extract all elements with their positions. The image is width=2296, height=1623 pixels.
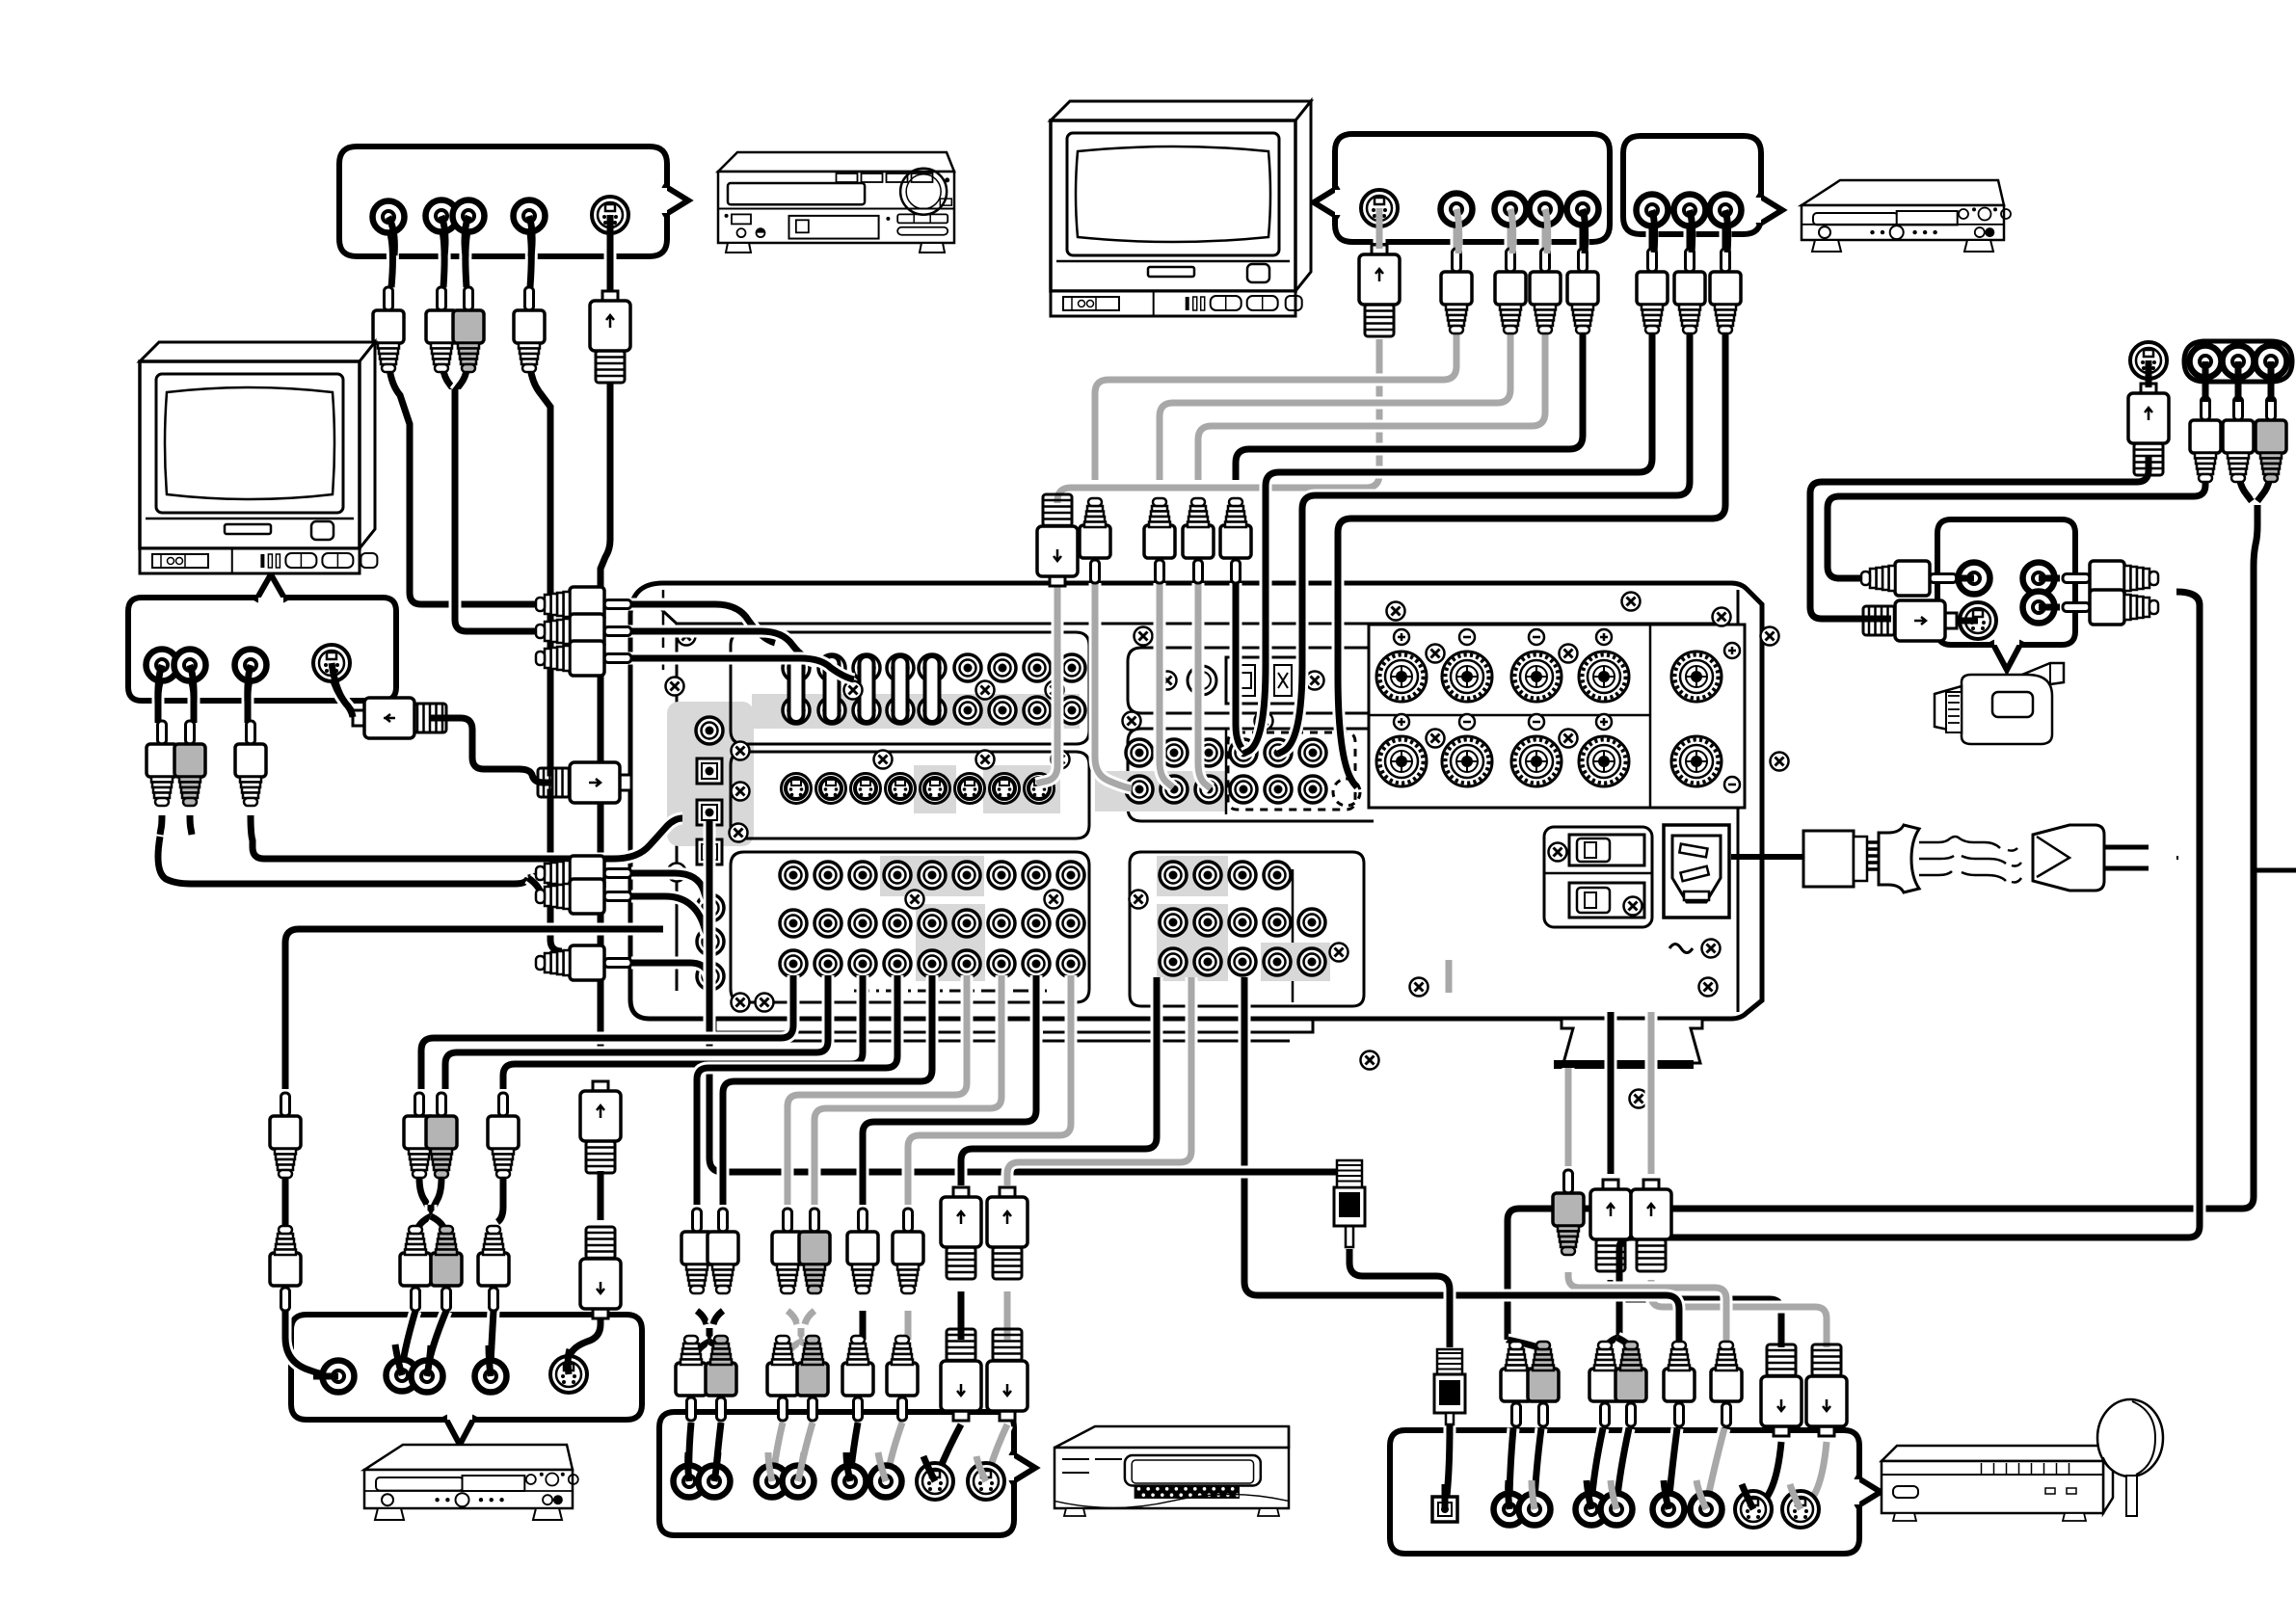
left TV callout jacks bbox=[147, 650, 178, 681]
cable link audio jacks panel bbox=[631, 873, 707, 902]
cable BL pair merged bbox=[425, 1205, 438, 1220]
cable left plug 655 into video pill column 2 bbox=[607, 631, 817, 662]
video rows screws bbox=[844, 681, 863, 700]
cable s-video extension upper half emerges under panel bbox=[1605, 1012, 1617, 1174]
callout box turntable or tape jacks bottom left bbox=[291, 1315, 642, 1420]
shaded band mid right bbox=[1095, 771, 1226, 811]
DVD callout jack video bbox=[373, 201, 405, 233]
cable TV monitor video 1 bbox=[1451, 224, 1463, 249]
rca plugs into LD callout bbox=[1501, 1342, 1532, 1426]
cable s-video extension 2 lower half to LD s-video 2 bbox=[1651, 1280, 1827, 1347]
cable link into panel audio jack bbox=[631, 963, 709, 978]
audio column jack 3 bbox=[697, 963, 724, 990]
cable run to BL pair white bbox=[421, 975, 793, 1089]
LD player device bbox=[1882, 1446, 2113, 1521]
s-video plugs into LD callout bbox=[1761, 1344, 1802, 1436]
LD callout optical jack bbox=[1432, 1497, 1457, 1522]
s-video plug TV monitor bbox=[1359, 245, 1400, 336]
panel section frame lower mid bbox=[1130, 852, 1364, 1006]
main switch 1 bbox=[1569, 835, 1644, 865]
DVD callout s-video jack bbox=[592, 197, 628, 233]
AM loop antenna bbox=[2097, 1399, 2163, 1516]
cable left TV audio R bbox=[190, 677, 194, 723]
inline rca plugs BM pair2 gray bbox=[772, 1209, 803, 1293]
audio column jack 1 bbox=[697, 894, 724, 921]
optical digital jack 2 bbox=[697, 800, 722, 825]
cable DVD video out to panel bbox=[388, 227, 392, 287]
inline rca plugs BM single2 bbox=[893, 1209, 923, 1293]
cable camcorder left jacks into panel ext-in bbox=[1957, 572, 1962, 585]
cable far-right s-video plug down to camcorder callout bbox=[2143, 376, 2155, 386]
cable far-right rca1 down to camcorder callout bbox=[2200, 376, 2212, 399]
VCR device bbox=[1055, 1426, 1289, 1516]
antenna screws bbox=[1159, 672, 1177, 690]
rca plug CDR 2 bbox=[1674, 249, 1705, 333]
rca plug camcorder callout bbox=[1861, 561, 1957, 596]
CDR callout jacks bbox=[1637, 195, 1669, 226]
inline rca plugs bottom left run3 bbox=[488, 1093, 519, 1178]
callout box TV monitor jacks bbox=[1335, 134, 1610, 242]
rca plug trio 1 bbox=[2190, 397, 2221, 482]
cable CDR jack1 down bbox=[1646, 224, 1659, 249]
rca plug into panel video2 bbox=[536, 614, 631, 649]
optical plug lower bbox=[1434, 1349, 1465, 1424]
cable BM pair2 Y lower gray bbox=[788, 1311, 797, 1324]
rca plug TV monitor v1 bbox=[1441, 249, 1472, 333]
lower jack field rows bbox=[780, 862, 807, 889]
receiver panel foot bbox=[1554, 1019, 1702, 1069]
inline rca plugs bottom left pair white bbox=[404, 1093, 435, 1178]
speaker terminal block frame bbox=[1369, 625, 1745, 808]
coaxial digital jack bbox=[696, 717, 723, 744]
rca plug camcorder right white bbox=[2063, 561, 2158, 596]
AC inlet bbox=[1664, 825, 1729, 918]
power cord assembly bbox=[1803, 825, 2296, 892]
s-video row screws bbox=[874, 751, 893, 769]
TV monitor callout s-video jack bbox=[1361, 190, 1398, 226]
dash-dot service line bbox=[854, 990, 1047, 993]
s-video plug DVD bbox=[590, 291, 630, 383]
rca plug into panel video3 bbox=[536, 641, 631, 676]
cable run to BL jack3 bbox=[503, 975, 863, 1089]
cable left TV audio R lower bbox=[190, 815, 192, 835]
CD recorder device top right bbox=[1802, 180, 2011, 252]
cable optical lower half bbox=[1349, 1249, 1450, 1347]
speaker terminal right top bbox=[1671, 652, 1722, 702]
DVD player device bottom left bbox=[364, 1445, 578, 1520]
cable pair Y split to plugs q2 q3 bbox=[1508, 1340, 1516, 1347]
callout box CD recorder jacks bbox=[1623, 136, 1761, 234]
digital audio section shaded box bbox=[667, 702, 754, 846]
LD callout jacks bbox=[1494, 1494, 1526, 1526]
rca plug DVD video out bbox=[373, 287, 404, 372]
video input jack columns plain bbox=[954, 654, 981, 681]
left TV monitor bbox=[140, 342, 377, 573]
cable audio pair split R bbox=[540, 631, 565, 656]
panel section frame mid right bbox=[1128, 729, 1374, 821]
callout box left TV monitor jacks bbox=[128, 598, 396, 701]
mid right jack rows bbox=[1126, 739, 1153, 766]
rca plug intermediate 2 bbox=[1144, 498, 1175, 583]
s-video plug from left TV bbox=[353, 698, 446, 738]
cable run to BL pair gray bbox=[445, 975, 828, 1089]
rca plug trio 2 bbox=[2223, 397, 2254, 482]
cable video1 inside panel bbox=[1095, 583, 1132, 788]
cable audio pair split L bbox=[540, 625, 561, 631]
cable left TV audio L lower bbox=[160, 815, 162, 835]
optical plug upper bbox=[1334, 1160, 1365, 1247]
s-video plug top right bbox=[2128, 384, 2169, 475]
top right s-video jack bbox=[2130, 342, 2167, 379]
rca plug CDR 1 bbox=[1637, 249, 1668, 333]
cable run BM s-video1 bbox=[961, 977, 1157, 1185]
DVD callout jack audio R bbox=[453, 200, 485, 232]
callout box camcorder jacks bbox=[1937, 519, 2075, 645]
inline rca plugs BM single1 bbox=[847, 1209, 878, 1293]
left TV callout s-video jack bbox=[313, 645, 350, 681]
cable DVD s-video to panel s-video plug bbox=[604, 231, 617, 291]
inline rca plugs BM pair1 bbox=[681, 1209, 712, 1293]
inline s-video plugs BM bbox=[941, 1187, 981, 1279]
cable far-right rca3 down bbox=[2265, 376, 2278, 399]
cable run BM pair1 B bbox=[723, 975, 932, 1205]
inline rca plug gray feed bbox=[1553, 1170, 1584, 1255]
speaker terminal right bottom bbox=[1671, 736, 1722, 786]
cable BL pair split down bbox=[415, 1216, 431, 1236]
switch screws bbox=[1549, 843, 1567, 862]
dashed ext-in box bbox=[1228, 732, 1355, 810]
receiver back panel outline bbox=[630, 583, 1762, 1019]
cable DVD audio L to panel bbox=[441, 227, 444, 287]
lower field screws bbox=[906, 891, 924, 909]
cable CDR jack2 down bbox=[1684, 224, 1696, 249]
DVD player device top left bbox=[718, 152, 954, 253]
cable DVD audio2 down to panel audio in bbox=[529, 227, 531, 287]
panel section frame s-video row bbox=[731, 752, 1089, 838]
rca plug left TV video upper bbox=[235, 721, 266, 806]
s-video plug camcorder callout bbox=[1863, 600, 1957, 641]
cable CDR jack3 down bbox=[1720, 224, 1732, 249]
rca plug intermediate 1 bbox=[1080, 498, 1110, 583]
panel section frame antenna bbox=[1128, 648, 1374, 713]
inline s-video plugs right bbox=[1590, 1180, 1631, 1271]
TV monitor callout jacks bbox=[1441, 194, 1473, 226]
cable DVD audio merged run bbox=[455, 389, 540, 631]
cable camcorder pair Y split bbox=[1607, 1338, 1617, 1347]
speaker terminals row2 bbox=[1376, 736, 1427, 786]
cable left TV audio split A bbox=[528, 873, 542, 878]
shaded band s-video bbox=[914, 765, 956, 813]
rca plug left TV audio R upper gray bbox=[174, 721, 205, 806]
dashed optional jack bbox=[1333, 779, 1360, 806]
antenna terminal block bbox=[1188, 657, 1297, 704]
video input jack columns with inserted plugs bbox=[783, 654, 810, 681]
rca plug intermediate 4 bbox=[1220, 498, 1251, 583]
rca plug TV monitor v3 bbox=[1530, 249, 1561, 333]
camcorder device bbox=[1935, 663, 2064, 744]
rca plug camcorder right gray bbox=[2063, 590, 2158, 625]
cable far-right rca2 down bbox=[2232, 376, 2245, 399]
main switch 2 bbox=[1569, 883, 1644, 918]
rca plug into panel audio R bbox=[536, 879, 631, 914]
cable s-video extension lower half to LD s-video 1 bbox=[1611, 1280, 1781, 1347]
cable AC inlet to power cord bbox=[1731, 854, 1805, 860]
rca plug into panel audio bbox=[536, 945, 631, 980]
DVD callout jack audio L bbox=[426, 200, 458, 232]
cable run BM s-video2 gray bbox=[1007, 977, 1191, 1185]
cable run BM single2 gray bbox=[908, 975, 1071, 1205]
rca plug TV monitor v2 bbox=[1495, 249, 1526, 333]
rca plug intermediate 3 bbox=[1183, 498, 1214, 583]
cable TV monitor video 3 bbox=[1539, 224, 1552, 249]
bottom middle callout jacks bbox=[674, 1466, 706, 1498]
callout box VCR jacks bottom middle bbox=[659, 1412, 1014, 1535]
rca plug into panel video1 bbox=[536, 587, 631, 622]
top right trio pill box bbox=[2184, 341, 2292, 382]
panel section frame video inputs bbox=[731, 632, 1089, 744]
inline rca plugs bottom left run1 bbox=[270, 1093, 301, 1178]
cable run BM pair2 B gray bbox=[814, 975, 1001, 1205]
panel section frame lower jack field bbox=[731, 852, 1089, 1002]
cable optical from panel to extension bbox=[709, 821, 1349, 1185]
cable DVD audio R to panel bbox=[466, 227, 468, 287]
inline rca plugs bottom left pair gray bbox=[426, 1093, 457, 1178]
cable optical into LD callout jack bbox=[1447, 1424, 1450, 1496]
cable s-video inside panel to jack bbox=[1036, 586, 1057, 784]
audio column jack 2 bbox=[697, 928, 724, 955]
cable left TV video to panel optical region bbox=[248, 677, 251, 723]
panel misc screws bbox=[1622, 593, 1641, 611]
bottom left callout jacks bbox=[323, 1361, 355, 1393]
camcorder callout jacks bbox=[1959, 563, 1990, 595]
switch bracket bbox=[1544, 827, 1652, 927]
rca plug trio 3 gray bbox=[2256, 397, 2286, 482]
cable run BM pair1 A bbox=[697, 975, 897, 1205]
cable left TV audio split B bbox=[528, 878, 542, 896]
cable left TV audio merged to panel bbox=[158, 837, 528, 884]
cable link into video pill column 1 bbox=[607, 604, 775, 643]
speaker terminals row1 bbox=[1376, 652, 1427, 702]
receiver panel pedestal lines bbox=[715, 1019, 1313, 1041]
inline s-video plugs bottom left bbox=[580, 1081, 621, 1173]
cable left TV s-video run to panel bbox=[430, 718, 551, 783]
DVD callout jack audio2 bbox=[514, 200, 546, 232]
cable TV monitor s-video bbox=[1374, 224, 1386, 243]
cable BM pair1 Y lower bbox=[697, 1311, 707, 1324]
audio column screws bbox=[668, 864, 686, 882]
s-video plug into panel bbox=[538, 762, 631, 803]
lower mid last column bbox=[1298, 909, 1325, 936]
rca plug DVD audio2 bbox=[514, 287, 545, 372]
cable left TV s-video to panel bbox=[332, 675, 355, 717]
jack cable exit stubs bbox=[388, 217, 394, 255]
callout box LD player jacks bottom right bbox=[1390, 1430, 1859, 1554]
cable s-video extension 2 upper half emerges under panel bbox=[1645, 1012, 1658, 1174]
rca plug into panel audio L bbox=[536, 856, 631, 891]
cable left plug 683 into video pill column 3 bbox=[607, 658, 854, 679]
optical digital jack 3 bbox=[697, 839, 722, 865]
rca plug DVD audio L bbox=[426, 287, 457, 372]
digital column screws bbox=[666, 678, 684, 696]
shaded bands lower field bbox=[880, 856, 984, 896]
cable TV monitor video 2 bbox=[1505, 224, 1517, 249]
cable BL jack3 entry bbox=[491, 1311, 494, 1363]
mid right screws bbox=[1387, 602, 1405, 621]
shaded band video row2 bbox=[752, 694, 1080, 729]
cable TV monitor video 4 black bbox=[1577, 224, 1589, 249]
AC tilde and screw bbox=[1669, 945, 1693, 953]
optical digital jack 1 bbox=[697, 758, 722, 784]
callout box DVD player jacks bbox=[339, 146, 667, 256]
cable left TV audio L bbox=[158, 677, 162, 723]
TV monitor top middle bbox=[1051, 101, 1311, 316]
rca plug CDR 3 bbox=[1710, 249, 1741, 333]
cable far-right pair merged to ld feed bbox=[1508, 505, 2257, 1340]
cable camcorder right pair merged down bbox=[1619, 592, 2200, 1338]
shaded bands lower right bbox=[1261, 943, 1330, 981]
cable gray inline rca feed bbox=[1562, 1068, 1575, 1166]
cable s-video into bottom-left callout jack bbox=[568, 1359, 570, 1378]
rca plug left TV audio L upper bbox=[147, 721, 177, 806]
lower mid jack rows bbox=[1160, 862, 1187, 889]
cable run BM pair2 A gray bbox=[788, 975, 967, 1205]
cable s-video inline extension left bbox=[595, 1171, 607, 1220]
cable black feed to LD jack 1731 bbox=[1244, 977, 1679, 1347]
speaker block screws bbox=[1427, 645, 1445, 663]
cable run BM single1 bbox=[863, 975, 1036, 1205]
s-video plug intermediate bbox=[1037, 494, 1078, 586]
rca plug DVD audio R gray bbox=[453, 287, 484, 372]
rca plug TV monitor v4 bbox=[1567, 249, 1598, 333]
lower mid divider bbox=[1292, 869, 1295, 1002]
s-video jack row bbox=[782, 774, 812, 804]
cable run LD pair2 gray source bbox=[1443, 960, 1455, 993]
lower right screws bbox=[1410, 978, 1428, 997]
cable run to BL jack1 bbox=[285, 929, 663, 1089]
